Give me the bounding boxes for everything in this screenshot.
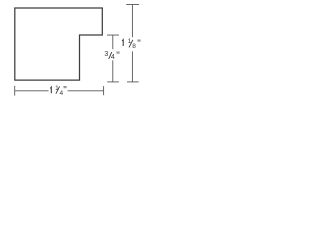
- svg-text:": ": [63, 85, 67, 96]
- label 1 1/4": [50, 85, 67, 97]
- bottom dimension line 1 1/4: [15, 86, 104, 96]
- svg-text:8: 8: [132, 43, 136, 50]
- svg-text:": ": [137, 38, 141, 49]
- svg-text:": ": [116, 51, 120, 62]
- svg-text:3: 3: [104, 51, 108, 58]
- moulding profile outline: [15, 8, 103, 80]
- label 1 1/8": [122, 38, 141, 50]
- label 3/4": [104, 51, 120, 62]
- svg-text:4: 4: [111, 54, 115, 61]
- 3/4 dimension line: [107, 35, 119, 82]
- right dimension line 1 1/8: [126, 5, 139, 82]
